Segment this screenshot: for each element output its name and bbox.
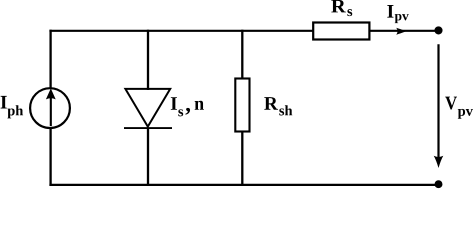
label V_pv (445, 97, 473, 119)
node terminal dot top (434, 26, 442, 34)
resistor R_s body (313, 23, 369, 40)
wire top rail right segment (370, 30, 439, 32)
wire left branch lower (49, 128, 51, 186)
node terminal dot bottom (435, 180, 443, 188)
wire R_sh branch upper (241, 30, 243, 78)
wire diode branch lower (147, 128, 149, 186)
voltage arrow V_pv line (437, 44, 439, 158)
wire bottom rail (49, 184, 438, 186)
label I_pv (387, 5, 408, 23)
label R_s (331, 0, 352, 16)
diode D1 triangle (125, 89, 170, 127)
voltage arrow V_pv head (434, 156, 444, 168)
wire diode branch upper (147, 30, 149, 90)
wire R_sh branch lower (241, 132, 243, 187)
label I_ph (1, 96, 24, 118)
arrowhead I_pv current direction (396, 28, 406, 35)
resistor R_sh body (235, 79, 249, 132)
current source arrow shaft (50, 98, 52, 127)
wire left branch upper (49, 30, 51, 88)
wire top rail left segment (49, 30, 313, 32)
label R_sh (264, 97, 292, 115)
label I_s , n (171, 97, 204, 116)
current source I_ph circle (30, 88, 70, 128)
diode cathode bar (124, 127, 172, 129)
current source arrow head (46, 88, 56, 99)
